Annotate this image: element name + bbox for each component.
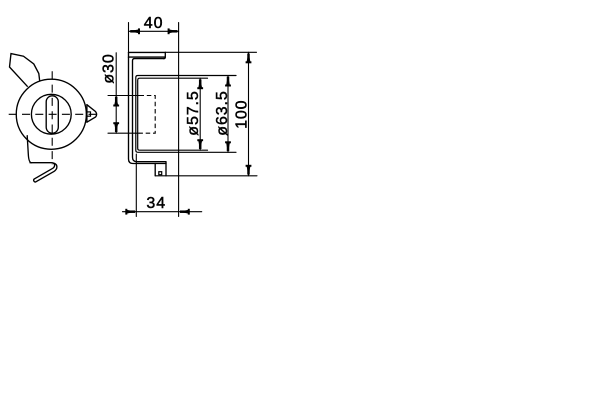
side view: rim inner wall (138, 78, 208, 150)
dim 30: top extension (108, 95, 140, 97)
front view: pulley inner circle (31, 94, 71, 134)
svg-text:ø57.5: ø57.5 (185, 90, 202, 135)
side view: flange mid line (129, 56, 166, 58)
arrow 57.5 top (198, 78, 202, 89)
side view: flange lip end (164, 52, 166, 58)
dim 30: dimension line (115, 53, 117, 133)
side view: foot left edge (154, 164, 156, 176)
dim 40: left extension (128, 23, 130, 53)
front view: tab small square (87, 112, 91, 116)
arrow 57.5 bottom (198, 140, 202, 151)
dim 57.5: dimension line (199, 78, 201, 150)
svg-text:100: 100 (233, 99, 250, 128)
front view: bracket hook inner (34, 163, 55, 179)
svg-text:34: 34 (146, 195, 166, 212)
arrow 100 bottom (246, 165, 250, 176)
dim 100: dimension line (248, 52, 250, 176)
dim 34: dimension line (123, 211, 202, 213)
arrow 30 bottom (114, 123, 118, 134)
side view: foot bottom + 100 extension (155, 175, 257, 177)
front view: upper-left arm (10, 54, 40, 87)
side view: flange bottom + web inner (133, 59, 166, 162)
arrow 40 left (129, 29, 140, 33)
front view: right tab point (87, 105, 97, 123)
side view: bracket web outer (129, 52, 167, 163)
svg-text:40: 40 (144, 15, 164, 32)
front view: right tab chord (86, 105, 88, 122)
svg-text:ø63.5: ø63.5 (214, 90, 231, 135)
side view: top extension to 100 dim (165, 51, 256, 53)
arrow 30 top (114, 96, 118, 107)
arrow 40 right (168, 29, 179, 33)
side view: right face / extension line (178, 23, 180, 217)
front view: bracket left edge (27, 136, 31, 163)
front view: center slot (46, 96, 58, 133)
arrow 34 right (outside) (179, 210, 190, 214)
side view: flange top (129, 51, 166, 53)
arrow 34 left (outside) (126, 210, 137, 214)
side view: foot hole (159, 172, 162, 175)
front view: bracket hook outer (30, 163, 57, 182)
arrow 100 top (246, 52, 250, 63)
dim 40: dimension line (129, 30, 179, 32)
dim 63.5: dimension line (227, 76, 229, 153)
svg-text:ø30: ø30 (101, 53, 118, 83)
arrow 63.5 bottom (226, 142, 230, 153)
side view: rim outer wall (136, 76, 236, 153)
front view: horizontal centerline (9, 113, 97, 115)
arrow 63.5 top (226, 76, 230, 87)
front view: pulley outer circle (16, 79, 86, 149)
side view: hidden hub bore (dashed) (140, 96, 156, 134)
side view: foot right edge (165, 162, 167, 176)
dim 34: left extension (135, 154, 137, 217)
front view: vertical centerline (51, 71, 53, 164)
dim 30: bottom extension (108, 132, 140, 134)
